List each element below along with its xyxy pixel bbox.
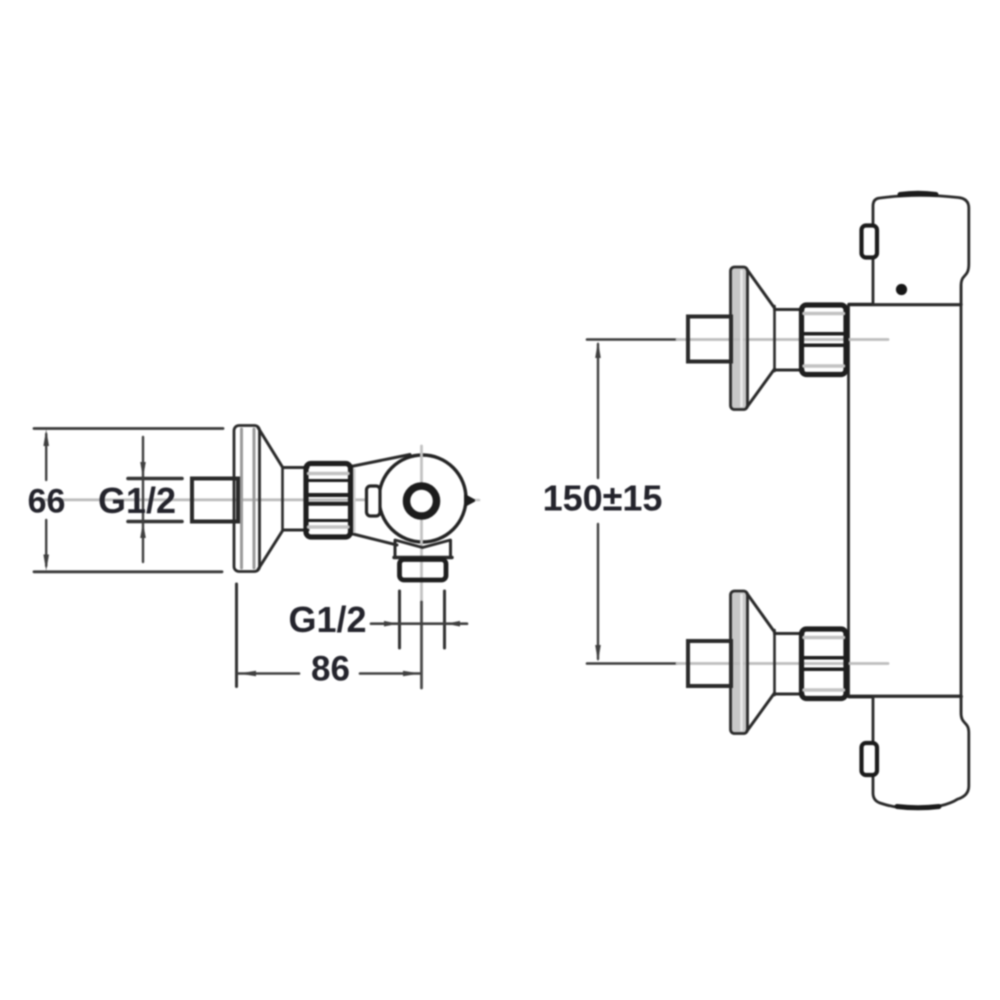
svg-text:150±15: 150±15 [543,478,663,519]
svg-text:G1/2: G1/2 [98,480,176,521]
svg-text:86: 86 [311,650,350,689]
svg-text:G1/2: G1/2 [288,599,366,640]
svg-text:66: 66 [28,483,66,521]
